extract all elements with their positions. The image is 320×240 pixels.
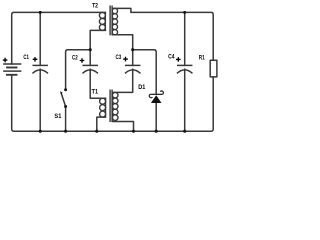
svg-text:C3: C3 xyxy=(116,54,122,61)
svg-text:C4: C4 xyxy=(168,54,175,61)
svg-text:R1: R1 xyxy=(199,54,205,61)
svg-text:C1: C1 xyxy=(23,54,29,61)
svg-text:C2: C2 xyxy=(72,55,78,62)
svg-text:S1: S1 xyxy=(54,113,61,120)
svg-text:D1: D1 xyxy=(138,84,145,91)
svg-text:T1: T1 xyxy=(92,88,99,95)
svg-text:T2: T2 xyxy=(92,3,98,10)
